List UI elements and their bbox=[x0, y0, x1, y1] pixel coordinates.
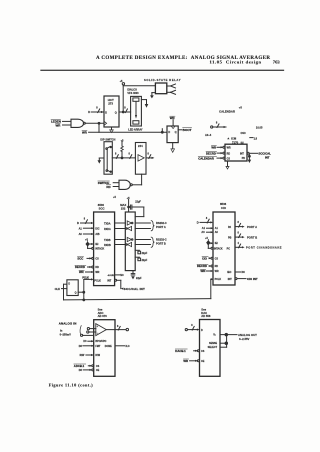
svg-text:PORT B: PORT B bbox=[247, 235, 257, 239]
svg-text:FMT: FMT bbox=[95, 345, 100, 348]
svg-text:PORT B: PORT B bbox=[156, 241, 166, 245]
svg-text:A0–3: A0–3 bbox=[205, 133, 212, 137]
svg-text:DONE: DONE bbox=[105, 345, 112, 348]
svg-text:11.05 Circuit design: 11.05 Circuit design bbox=[210, 60, 262, 65]
svg-text:PORT A: PORT A bbox=[247, 225, 257, 229]
svg-text:RXDB: RXDB bbox=[104, 244, 111, 247]
svg-text:Vₒ: Vₒ bbox=[213, 334, 216, 337]
svg-text:INT: INT bbox=[107, 279, 111, 282]
svg-text:WR: WR bbox=[56, 123, 62, 127]
svg-text:CIO INT: CIO INT bbox=[247, 277, 258, 281]
svg-text:SCC: SCC bbox=[99, 206, 105, 210]
svg-text:+: + bbox=[97, 325, 99, 328]
svg-text:NC: NC bbox=[120, 274, 124, 277]
svg-text:RD: RD bbox=[215, 265, 219, 268]
svg-text:ANALOG IN: ANALOG IN bbox=[59, 321, 77, 325]
svg-text:1.8: 1.8 bbox=[254, 137, 258, 140]
svg-text:232: 232 bbox=[121, 207, 126, 211]
svg-text:CS: CS bbox=[96, 365, 100, 368]
svg-text:VFS 4003: VFS 4003 bbox=[127, 92, 139, 95]
svg-text:A1: A1 bbox=[202, 227, 206, 230]
svg-text:SELECT: SELECT bbox=[208, 346, 218, 349]
svg-text:CALENDAR: CALENDAR bbox=[198, 156, 214, 160]
svg-text:D: D bbox=[88, 110, 90, 114]
svg-text:PB: PB bbox=[228, 236, 232, 239]
svg-text:WR: WR bbox=[201, 269, 206, 273]
svg-text:8: 8 bbox=[238, 232, 240, 235]
svg-text:Q: Q bbox=[115, 111, 117, 114]
svg-text:IEO: IEO bbox=[227, 271, 231, 274]
svg-text:AD 558: AD 558 bbox=[201, 314, 211, 318]
svg-text:Q: Q bbox=[75, 291, 77, 294]
svg-text:Q: Q bbox=[175, 131, 177, 134]
svg-text:A/B: A/B bbox=[95, 233, 99, 236]
svg-text:DAC: DAC bbox=[201, 311, 207, 315]
svg-text:4: 4 bbox=[238, 242, 240, 245]
svg-text:D: D bbox=[68, 283, 70, 286]
svg-text:RXDA: RXDA bbox=[104, 228, 111, 231]
svg-text:INT: INT bbox=[228, 278, 232, 281]
svg-text:8: 8 bbox=[117, 325, 119, 328]
svg-text:ADC: ADC bbox=[98, 311, 104, 315]
svg-text:+5: +5 bbox=[239, 105, 243, 109]
svg-text:PA: PA bbox=[228, 226, 231, 229]
svg-text:D: D bbox=[168, 131, 170, 134]
svg-text:CALENDAR: CALENDAR bbox=[219, 110, 235, 114]
svg-text:BPO/UPO: BPO/UPO bbox=[95, 340, 106, 343]
svg-text:AD 670: AD 670 bbox=[98, 314, 108, 318]
svg-text:IEI: IEI bbox=[95, 243, 98, 246]
svg-text:DACB.1: DACB.1 bbox=[175, 349, 186, 353]
svg-text:8: 8 bbox=[124, 106, 126, 109]
svg-text:IEI: IEI bbox=[215, 242, 218, 245]
svg-text:D0: D0 bbox=[83, 340, 87, 343]
svg-text:8: 8 bbox=[84, 218, 86, 221]
svg-text:8: 8 bbox=[115, 152, 117, 155]
svg-text:D8: D8 bbox=[79, 369, 83, 372]
svg-text:See: See bbox=[98, 307, 103, 311]
svg-text:8: 8 bbox=[206, 217, 208, 220]
svg-text:DECRD: DECRD bbox=[197, 264, 207, 268]
svg-text:TXDA: TXDA bbox=[104, 222, 111, 225]
svg-text:SCC/CAL INT: SCC/CAL INT bbox=[124, 287, 145, 291]
svg-text:22μF: 22μF bbox=[142, 259, 148, 262]
svg-text:D: D bbox=[197, 221, 199, 225]
svg-text:22μF: 22μF bbox=[136, 277, 142, 280]
svg-text:+5: +5 bbox=[113, 196, 116, 199]
svg-text:SENSE: SENSE bbox=[209, 342, 218, 345]
svg-text:0–2.55V: 0–2.55V bbox=[239, 337, 250, 341]
svg-text:8: 8 bbox=[216, 122, 218, 125]
svg-text:SCC: SCC bbox=[77, 257, 83, 261]
svg-text:8: 8 bbox=[238, 221, 240, 224]
svg-text:22μF: 22μF bbox=[142, 252, 148, 255]
svg-text:LED ARRAY: LED ARRAY bbox=[128, 129, 143, 132]
svg-text:10.05: 10.05 bbox=[256, 126, 263, 130]
svg-text:INT: INT bbox=[265, 156, 270, 160]
svg-text:WR: WR bbox=[215, 270, 219, 273]
svg-text:A1: A1 bbox=[79, 227, 83, 230]
svg-text:INTACK: INTACK bbox=[95, 248, 104, 251]
svg-text:CS: CS bbox=[201, 350, 205, 353]
svg-text:A1: A1 bbox=[215, 227, 219, 230]
svg-text:CS: CS bbox=[95, 258, 99, 261]
svg-text:TXDB: TXDB bbox=[104, 239, 111, 242]
svg-text:4.9152: 4.9152 bbox=[108, 274, 115, 277]
svg-text:in: in bbox=[60, 328, 63, 332]
svg-text:CE: CE bbox=[201, 360, 205, 363]
svg-text:0–255mV: 0–255mV bbox=[60, 333, 72, 337]
svg-text:R/W: R/W bbox=[95, 354, 100, 357]
svg-text:CLK: CLK bbox=[55, 287, 61, 291]
svg-text:MAX: MAX bbox=[120, 203, 126, 207]
svg-text:D: D bbox=[77, 221, 79, 225]
svg-text:D: D bbox=[201, 329, 203, 332]
svg-text:CS: CS bbox=[227, 157, 231, 160]
svg-text:WR: WR bbox=[82, 130, 88, 134]
svg-text:A0: A0 bbox=[215, 231, 219, 234]
svg-text:Figure 11.10 (cont.): Figure 11.10 (cont.) bbox=[49, 383, 94, 388]
svg-text:RD: RD bbox=[227, 152, 231, 155]
svg-text:WR: WR bbox=[227, 147, 231, 150]
svg-text:CIO: CIO bbox=[221, 206, 227, 210]
svg-text:INT: INT bbox=[240, 152, 244, 155]
svg-text:DECRD: DECRD bbox=[75, 265, 85, 269]
svg-text:OSC: OSC bbox=[241, 132, 246, 135]
svg-text:273: 273 bbox=[108, 102, 113, 106]
svg-text:See: See bbox=[201, 307, 206, 311]
svg-text:PORT A: PORT A bbox=[156, 225, 166, 229]
svg-text:8: 8 bbox=[148, 152, 150, 155]
svg-text:+5: +5 bbox=[205, 237, 208, 240]
svg-text:WR: WR bbox=[95, 271, 99, 274]
svg-text:WR: WR bbox=[183, 359, 188, 363]
svg-text:PCLK: PCLK bbox=[94, 279, 101, 282]
svg-text:WR: WR bbox=[79, 270, 84, 274]
svg-text:ADCB.1: ADCB.1 bbox=[74, 364, 85, 368]
svg-text:N.C: N.C bbox=[126, 345, 130, 348]
svg-text:RS232-C: RS232-C bbox=[156, 221, 167, 225]
svg-text:244: 244 bbox=[138, 144, 143, 148]
svg-text:RS232-C: RS232-C bbox=[156, 237, 167, 241]
svg-text:8: 8 bbox=[129, 152, 131, 155]
svg-text:PC: PC bbox=[227, 247, 231, 250]
svg-text:A0: A0 bbox=[79, 233, 83, 236]
svg-text:PCLK: PCLK bbox=[215, 278, 222, 281]
svg-text:763: 763 bbox=[273, 60, 281, 65]
svg-text:RD: RD bbox=[106, 185, 110, 189]
svg-text:NC: NC bbox=[242, 271, 246, 274]
svg-text:D/C: D/C bbox=[95, 227, 99, 230]
svg-text:D: D bbox=[105, 111, 107, 114]
svg-text:RD: RD bbox=[95, 266, 99, 269]
svg-text:CE: CE bbox=[96, 369, 100, 372]
svg-text:BOOT: BOOT bbox=[183, 128, 192, 132]
svg-text:SOLID-STATE RELAY: SOLID-STATE RELAY bbox=[144, 78, 181, 82]
svg-text:DECRD: DECRD bbox=[206, 151, 216, 155]
svg-text:A0: A0 bbox=[201, 231, 205, 234]
svg-text:8: 8 bbox=[191, 324, 193, 327]
svg-text:DIALCO: DIALCO bbox=[127, 89, 137, 92]
svg-text:22μF: 22μF bbox=[135, 201, 141, 204]
svg-text:CS: CS bbox=[215, 257, 219, 260]
svg-text:PD: PD bbox=[242, 157, 246, 160]
svg-text:INTACK: INTACK bbox=[214, 247, 223, 250]
svg-text:WR: WR bbox=[211, 146, 216, 150]
svg-text:CIO: CIO bbox=[202, 256, 208, 260]
svg-text:D8: D8 bbox=[79, 345, 83, 348]
svg-text:8: 8 bbox=[96, 107, 98, 110]
svg-text:R/W: R/W bbox=[80, 354, 85, 357]
svg-text:PORT C/HANDSHAKE: PORT C/HANDSHAKE bbox=[246, 246, 282, 250]
